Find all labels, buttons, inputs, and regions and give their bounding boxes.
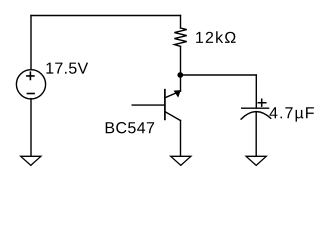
wire emitter vertical xyxy=(180,121,182,157)
ground middle xyxy=(171,156,191,165)
wire resistor bottom lead to node xyxy=(180,46,182,75)
ground left xyxy=(21,156,41,165)
wire left rail lower xyxy=(30,99,32,156)
transistor Q1 base bar xyxy=(164,90,166,120)
capacitor curved bottom plate xyxy=(241,112,271,120)
resistor 12k zigzag xyxy=(174,28,186,46)
transistor upper diagonal with arrow xyxy=(165,91,181,98)
wire capacitor top lead xyxy=(255,75,257,108)
voltage source minus sign xyxy=(27,93,34,95)
transistor lower diagonal xyxy=(165,112,181,121)
wire capacitor bottom lead xyxy=(255,113,257,157)
label BC547 xyxy=(106,122,154,133)
wire collector vertical from node xyxy=(180,75,182,91)
voltage source V1 circle xyxy=(16,70,45,99)
label 12k ohm xyxy=(196,31,235,43)
wire left rail upper xyxy=(30,16,32,70)
transistor base lead wire xyxy=(132,104,165,106)
transistor arrowhead xyxy=(174,90,181,98)
wire node to capacitor xyxy=(180,74,256,76)
capacitor plus sign xyxy=(258,99,266,106)
ground right xyxy=(246,156,266,165)
wire top rail xyxy=(31,15,181,17)
node junction dot xyxy=(177,72,183,78)
capacitor top plate xyxy=(242,107,269,109)
label 17.5V xyxy=(46,63,88,74)
wire resistor top lead xyxy=(180,16,182,28)
voltage source plus sign xyxy=(27,72,34,79)
label 4.7uF xyxy=(269,107,313,121)
